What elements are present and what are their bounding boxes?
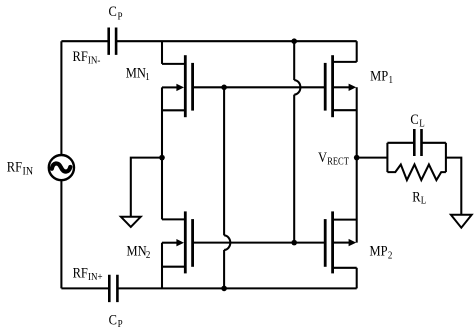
capacitor CP top plates: [109, 28, 116, 55]
junction dot bottom rail x224: [221, 286, 227, 292]
MN2 bulk arrowhead: [176, 239, 184, 246]
MP1 source stub: [333, 109, 357, 111]
wire MP2 drain to bottom rail: [356, 268, 358, 289]
MN2 source stub: [162, 266, 185, 268]
wire hop over bottom gate bus: [224, 235, 230, 250]
junction dot top rail x294: [291, 38, 297, 44]
junction dot VRECT: [354, 155, 360, 161]
svg-text:MN: MN: [126, 64, 146, 80]
svg-text:MN: MN: [127, 242, 147, 258]
MN2 bulk wire: [162, 242, 177, 244]
MN1 gate bar: [191, 63, 194, 111]
load box left edge: [386, 143, 388, 172]
wire bottom gate bus (MN2 gate to MP2 gate): [193, 242, 326, 244]
load box top edge to CL: [387, 142, 446, 144]
MP1 bulk wire: [334, 86, 349, 88]
svg-text:2: 2: [388, 250, 393, 262]
wire top rail right of CP: [116, 40, 357, 42]
transistor MP2: [325, 211, 357, 288]
junction dot top gate bus x224: [221, 85, 227, 91]
wire MP1 source down to VRECT and MP2 source: [356, 87, 358, 242]
junction dot bottom gate bus x294: [291, 240, 297, 246]
transistor MN1: [162, 41, 193, 117]
wire left rail upper (source to top rail): [60, 41, 62, 155]
MP2 gate bar: [324, 219, 327, 267]
ground symbol left: [121, 217, 141, 227]
svg-text:C: C: [109, 3, 117, 19]
svg-text:RECT: RECT: [327, 157, 349, 168]
wire cross-couple from top gate bus to bottom rail: [224, 87, 230, 288]
wire bottom rail right of CP: [117, 287, 356, 289]
wire hop over top gate bus: [294, 80, 300, 95]
transistor MP1: [325, 41, 357, 117]
svg-text:L: L: [419, 118, 425, 130]
MP1 bulk arrowhead: [349, 84, 357, 91]
junction dot ground node: [159, 155, 165, 161]
svg-text:L: L: [421, 195, 427, 207]
MP2 bulk arrowhead: [349, 239, 357, 246]
svg-text:2: 2: [146, 249, 151, 261]
svg-text:RF: RF: [73, 48, 89, 64]
wire top gate bus (MN1 gate to MP1 gate): [193, 86, 326, 88]
MN2 drain stub: [162, 218, 185, 220]
capacitor CL plates: [414, 129, 421, 156]
MP1 channel bar: [331, 55, 334, 117]
MN1 drain stub: [162, 63, 185, 65]
MP1 drain stub: [333, 61, 357, 63]
svg-text:IN: IN: [23, 165, 34, 178]
MP2 drain stub: [333, 267, 357, 269]
wire ground tap from MN1 source node: [131, 158, 162, 217]
MP1 gate bar: [324, 63, 327, 111]
MN2 gate bar: [191, 219, 194, 267]
wire cross-couple from top rail to bottom gate bus: [294, 41, 300, 242]
ground symbol right: [451, 215, 472, 228]
MP2 source stub: [333, 219, 357, 221]
MN2 channel bar: [184, 211, 187, 273]
svg-text:P: P: [118, 11, 123, 23]
load box right edge: [445, 143, 447, 172]
wire MN1 source down to ground node and MN2 drain: [161, 87, 163, 219]
svg-text:V: V: [318, 149, 327, 165]
svg-text:MP: MP: [370, 243, 388, 259]
svg-text:IN+: IN+: [88, 271, 103, 283]
wire bottom rail left of CP: [61, 287, 109, 289]
svg-text:P: P: [118, 319, 123, 331]
capacitor CP bottom plates: [109, 275, 117, 302]
voltage source RFIN sine symbol: [52, 163, 71, 171]
MP2 channel bar: [331, 211, 334, 273]
MN1 channel bar: [184, 55, 187, 117]
wire top rail left of CP: [61, 40, 108, 42]
MP2 bulk wire: [334, 242, 349, 244]
MN1 bulk arrowhead: [176, 84, 184, 91]
svg-text:C: C: [410, 111, 418, 127]
wire left rail lower (source to bottom rail): [60, 180, 62, 288]
MN1 source stub: [162, 109, 185, 111]
wire MP1 drain to top rail: [356, 41, 358, 62]
resistor RL zigzag on bottom edge: [387, 165, 446, 181]
wire VRECT node to load: [357, 157, 388, 159]
svg-text:MP: MP: [370, 67, 388, 83]
svg-text:1: 1: [145, 71, 150, 83]
svg-text:1: 1: [389, 74, 394, 86]
transistor MN2: [162, 211, 193, 288]
svg-text:RF: RF: [73, 264, 89, 280]
wire MN1 drain to top rail: [161, 41, 163, 64]
wire load to right ground: [446, 158, 461, 215]
svg-text:C: C: [109, 312, 117, 328]
svg-text:IN-: IN-: [88, 55, 100, 67]
MN1 bulk wire: [162, 86, 177, 88]
wire MN2 source to bottom rail: [161, 243, 163, 289]
voltage source RFIN (circle): [49, 155, 74, 180]
svg-text:RF: RF: [7, 159, 23, 175]
